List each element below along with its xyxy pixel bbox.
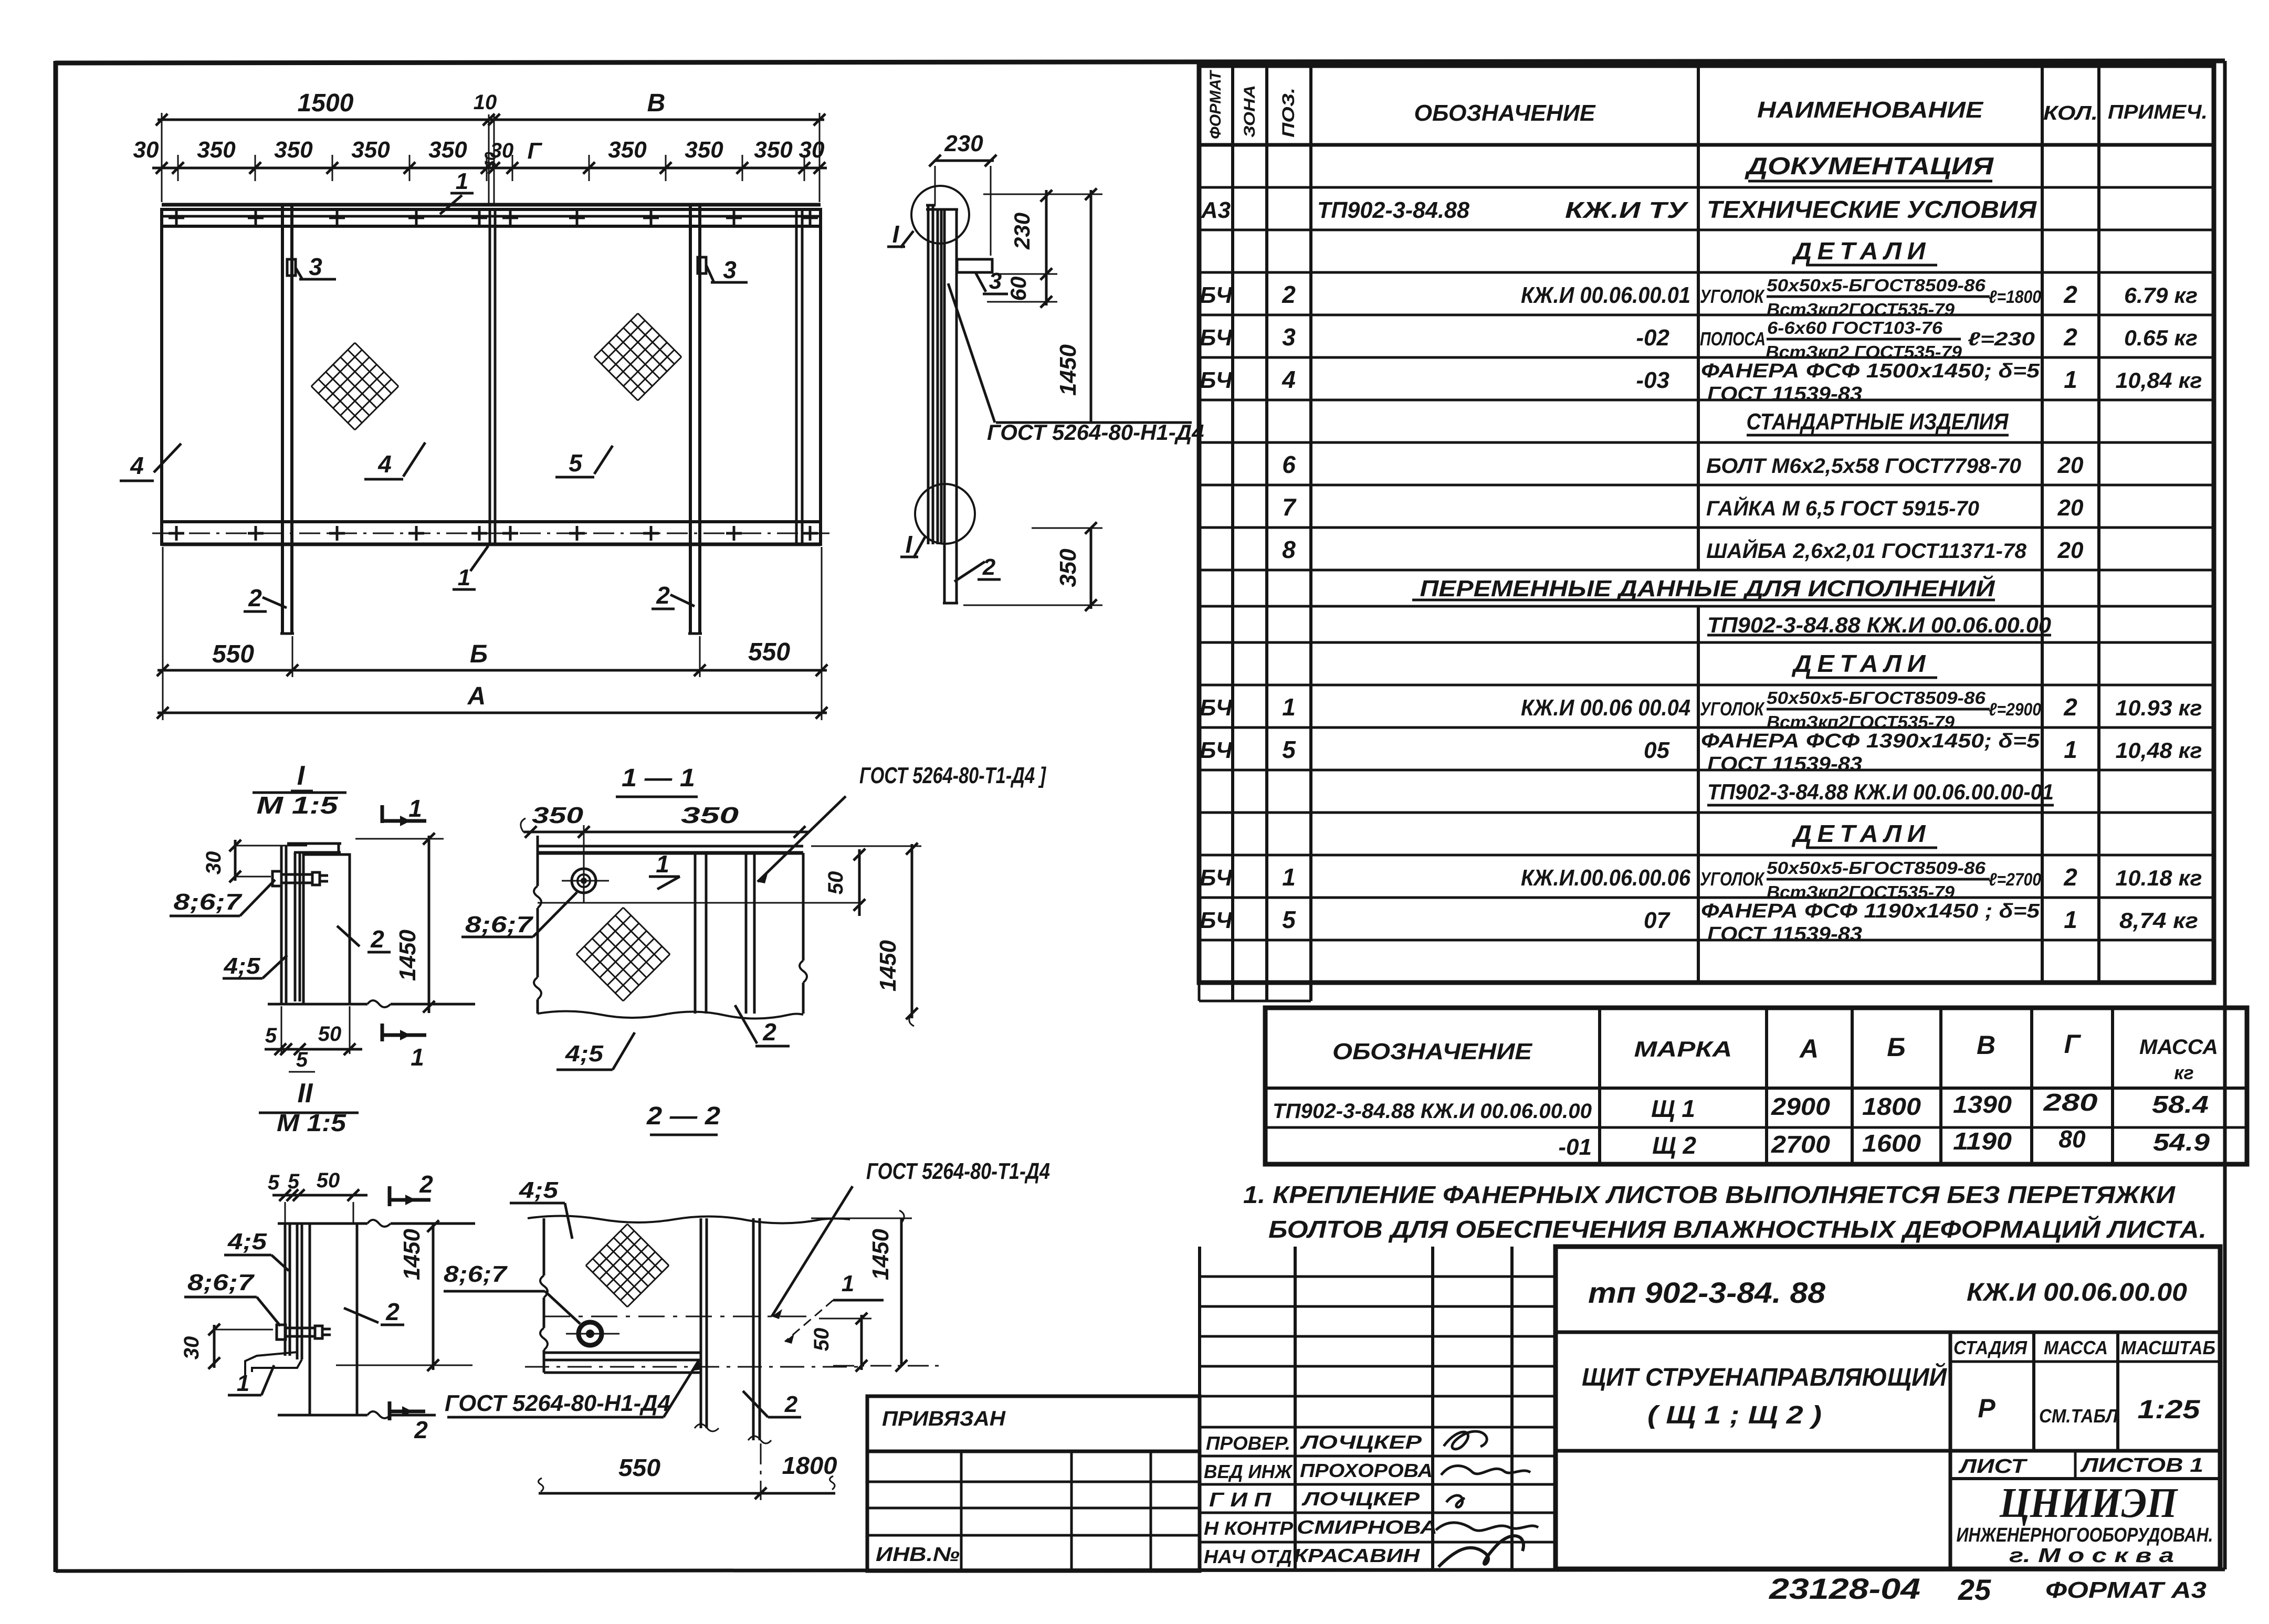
annex verticals: [960, 1451, 963, 1571]
side view dim 230 top: [935, 160, 994, 162]
svg-text:23128-04: 23128-04: [1769, 1572, 1920, 1605]
section I bolt: [272, 871, 281, 886]
section I cut mark 1 top right: [381, 805, 384, 823]
svg-text:-02: -02: [1636, 325, 1669, 351]
svg-text:7: 7: [1282, 493, 1297, 521]
svg-text:1: 1: [2064, 366, 2077, 393]
svg-text:4: 4: [130, 452, 144, 479]
svg-text:ЦНИИЭП: ЦНИИЭП: [1999, 1480, 2179, 1526]
side view top cap: [926, 204, 936, 207]
svg-text:1600: 1600: [1862, 1130, 1921, 1157]
section I angle top flange: [287, 842, 341, 845]
svg-text:550: 550: [212, 640, 254, 668]
svg-text:1 — 1: 1 — 1: [622, 764, 695, 792]
param table column lines: [1598, 1008, 1601, 1164]
svg-text:6.79 кг: 6.79 кг: [2124, 283, 2198, 308]
svg-text:1:25: 1:25: [2138, 1395, 2201, 1424]
title block list column divider: [2074, 1451, 2077, 1479]
side view detail circle I bottom: [915, 484, 975, 544]
svg-text:4;5: 4;5: [565, 1041, 604, 1067]
svg-text:1800: 1800: [1862, 1093, 1921, 1120]
section II top edge wavy line: [278, 1222, 367, 1225]
svg-text:2: 2: [2063, 281, 2077, 308]
svg-text:ПРИМЕЧ.: ПРИМЕЧ.: [2108, 101, 2208, 123]
page frame bottom border: [56, 1569, 2225, 1571]
svg-text:5: 5: [1282, 736, 1296, 763]
svg-text:2: 2: [370, 925, 384, 953]
svg-text:2: 2: [248, 584, 262, 611]
section 2-2 top break line: [528, 1216, 850, 1223]
svg-text:3: 3: [989, 268, 1002, 294]
svg-text:-01: -01: [1558, 1134, 1592, 1160]
front view hatch right: [594, 313, 638, 357]
signature grid lower rows: [1200, 1455, 1556, 1458]
svg-text:1500: 1500: [298, 89, 354, 117]
svg-text:30: 30: [180, 1336, 203, 1360]
svg-text:1450: 1450: [395, 930, 421, 981]
section I bottom dims 5 50: [265, 1048, 362, 1051]
section 2-2 bolt circle filled: [579, 1322, 602, 1345]
svg-text:350: 350: [681, 803, 739, 828]
section 2-2 dash-dot line: [525, 1366, 861, 1368]
svg-text:8,74 кг: 8,74 кг: [2119, 908, 2198, 933]
svg-text:230: 230: [1010, 213, 1034, 250]
svg-text:ГОСТ 5264-80-Т1-Д4: ГОСТ 5264-80-Т1-Д4: [866, 1158, 1050, 1184]
section I cut mark 1 bottom right: [381, 1024, 384, 1041]
svg-text:ВстЗкп2ГОСТ535-79: ВстЗкп2ГОСТ535-79: [1767, 882, 1955, 902]
svg-text:10: 10: [474, 91, 497, 114]
svg-text:ТП902-3-84.88 КЖ.И 00.06.00: ТП902-3-84.88 КЖ.И 00.06.00.00: [1273, 1100, 1592, 1123]
svg-text:8;6;7: 8;6;7: [174, 889, 243, 915]
svg-text:Г: Г: [2064, 1029, 2082, 1059]
title block line above list row: [1556, 1449, 2220, 1453]
svg-text:1: 1: [656, 850, 669, 878]
svg-text:20: 20: [2057, 495, 2084, 521]
side view angle edge lines: [937, 209, 939, 544]
svg-text:1: 1: [842, 1271, 854, 1296]
side view sheet edge lines: [927, 205, 930, 544]
svg-text:1450: 1450: [875, 940, 901, 992]
svg-text:КЖ.И 00.06 00.04: КЖ.И 00.06 00.04: [1521, 695, 1690, 721]
section II angle leg verticals: [296, 1224, 299, 1359]
svg-text:БОЛТ М6х2,5х58 ГОСТ7798-70: БОЛТ М6х2,5х58 ГОСТ7798-70: [1706, 455, 2021, 478]
svg-text:ℓ=230: ℓ=230: [1968, 328, 2035, 350]
section 2-2 left edge verticals with breaks: [543, 1218, 545, 1275]
svg-text:А: А: [1799, 1034, 1819, 1063]
svg-text:БЧ: БЧ: [1200, 367, 1233, 393]
svg-text:1: 1: [237, 1370, 249, 1396]
svg-text:350: 350: [754, 137, 793, 163]
svg-text:50: 50: [318, 1022, 342, 1046]
section I angle leg verticals: [294, 852, 297, 1001]
svg-text:6: 6: [1282, 451, 1296, 478]
spec table outer border: [1199, 66, 2214, 983]
privjazan box: [867, 1396, 1200, 1451]
svg-text:ЛОЧЦКЕР: ЛОЧЦКЕР: [1299, 1431, 1422, 1453]
svg-text:30: 30: [799, 137, 825, 163]
section 1-1 bolt center line vertical: [583, 825, 585, 903]
svg-text:10.93 кг: 10.93 кг: [2116, 695, 2202, 720]
svg-text:10.18 кг: 10.18 кг: [2116, 866, 2202, 890]
svg-text:550: 550: [748, 638, 790, 666]
svg-text:5: 5: [268, 1171, 280, 1194]
svg-text:2700: 2700: [1771, 1131, 1831, 1158]
svg-text:ПРОХОРОВА: ПРОХОРОВА: [1300, 1460, 1433, 1481]
front view bottom band dash-dot line: [152, 533, 829, 534]
svg-text:230: 230: [944, 131, 983, 156]
section 1-1 dim 1450: [911, 844, 913, 1018]
front view left clip item3: [287, 259, 296, 276]
section II post bar: [310, 1224, 357, 1415]
section II bolt: [277, 1325, 286, 1340]
svg-text:УГОЛОК: УГОЛОК: [1700, 286, 1765, 307]
svg-text:ВЕД ИНЖ: ВЕД ИНЖ: [1204, 1461, 1293, 1482]
svg-text:2: 2: [385, 1298, 400, 1325]
svg-text:1: 1: [2064, 736, 2077, 763]
svg-text:1: 1: [456, 168, 468, 194]
svg-text:4: 4: [1281, 366, 1296, 393]
svg-text:10,84 кг: 10,84 кг: [2116, 368, 2202, 393]
page frame right border: [2223, 61, 2227, 1569]
svg-text:( Щ 1 ; Щ 2 ): ( Щ 1 ; Щ 2 ): [1647, 1401, 1822, 1429]
svg-text:5: 5: [296, 1048, 308, 1071]
svg-text:ФАНЕРА ФСФ 1190х1450 ; δ=5: ФАНЕРА ФСФ 1190х1450 ; δ=5: [1701, 900, 2040, 922]
svg-text:ТП902-3-84.88: ТП902-3-84.88: [1317, 197, 1470, 223]
svg-text:350: 350: [532, 803, 584, 828]
svg-text:5: 5: [1282, 906, 1296, 933]
svg-text:Б: Б: [470, 640, 488, 668]
svg-text:50: 50: [810, 1328, 833, 1352]
label 3 left with leader: [296, 268, 302, 279]
section II top dims 5 5 50: [272, 1194, 367, 1197]
front dim B row: 550 B 550: [157, 669, 827, 672]
svg-text:ГОСТ 11539-83: ГОСТ 11539-83: [1707, 753, 1862, 775]
front dim lower extension verticals: [162, 547, 164, 720]
svg-text:Щ 2: Щ 2: [1652, 1132, 1696, 1159]
svg-text:280: 280: [2043, 1089, 2098, 1116]
section 2-2 dim 50 right: [860, 1315, 863, 1370]
svg-text:ИНВ.№: ИНВ.№: [876, 1544, 960, 1566]
svg-text:ДЕТАЛИ: ДЕТАЛИ: [1791, 237, 1931, 265]
front view right clip item3: [698, 257, 706, 273]
svg-text:1450: 1450: [1055, 344, 1081, 396]
svg-text:М 1:5: М 1:5: [257, 792, 339, 819]
svg-text:5: 5: [569, 449, 583, 477]
svg-text:Н КОНТР: Н КОНТР: [1204, 1517, 1294, 1539]
svg-text:БЧ: БЧ: [1200, 737, 1233, 763]
svg-text:350: 350: [428, 137, 467, 163]
section 1-1 top band lines: [538, 845, 803, 848]
section I dim 30: [234, 840, 237, 881]
side view dim 230 vertical: [1045, 190, 1048, 305]
front dim row1 line 1500-10-V: [157, 119, 824, 121]
svg-text:ШАЙБА 2,6х2,01 ГОСТ11371-78: ШАЙБА 2,6х2,01 ГОСТ11371-78: [1706, 538, 2027, 563]
front view right sheet edge lines: [795, 209, 798, 544]
section 2-2 bottom dims 550 1800: [539, 1492, 835, 1495]
svg-text:Г И П: Г И П: [1209, 1489, 1272, 1511]
svg-text:2: 2: [2063, 863, 2077, 891]
spec table row lines: [1199, 186, 2214, 189]
svg-text:I: I: [297, 761, 306, 791]
svg-text:ПЕРЕМЕННЫЕ ДАННЫЕ ДЛЯ ИСПОЛНЕН: ПЕРЕМЕННЫЕ ДАННЫЕ ДЛЯ ИСПОЛНЕНИЙ: [1420, 575, 1996, 602]
svg-text:УГОЛОК: УГОЛОК: [1700, 868, 1765, 890]
svg-text:50: 50: [317, 1169, 340, 1192]
svg-text:МАССА: МАССА: [2044, 1337, 2108, 1358]
svg-text:ЛИСТОВ 1: ЛИСТОВ 1: [2079, 1454, 2203, 1477]
svg-text:20: 20: [2057, 452, 2084, 478]
svg-text:М 1:5: М 1:5: [277, 1109, 347, 1136]
svg-text:Г: Г: [527, 138, 542, 164]
section 1-1 right edge line with break: [802, 853, 805, 961]
svg-text:ГОСТ 11539-83: ГОСТ 11539-83: [1707, 923, 1862, 945]
svg-text:Щ 1: Щ 1: [1651, 1095, 1695, 1122]
svg-text:8: 8: [1282, 536, 1296, 563]
spec table column lines: [1231, 66, 1234, 1001]
side view post bar: [943, 209, 946, 603]
svg-text:30: 30: [133, 137, 159, 163]
svg-text:НАЧ ОТД: НАЧ ОТД: [1204, 1546, 1292, 1567]
svg-text:2: 2: [2063, 693, 2077, 721]
svg-text:-03: -03: [1636, 367, 1669, 393]
svg-text:СТАНДАРТНЫЕ ИЗДЕЛИЯ: СТАНДАРТНЫЕ ИЗДЕЛИЯ: [1747, 409, 2009, 435]
side view item3 flat bar: [957, 259, 992, 272]
section II dim 30: [213, 1325, 216, 1368]
section 2-2 hatch: [586, 1224, 627, 1266]
svg-text:А3: А3: [1201, 197, 1231, 223]
svg-text:1: 1: [411, 1043, 424, 1071]
svg-text:II: II: [298, 1078, 313, 1109]
svg-text:СТАДИЯ: СТАДИЯ: [1953, 1337, 2028, 1358]
section I post bar: [303, 855, 350, 1004]
svg-text:ПРОВЕР.: ПРОВЕР.: [1206, 1432, 1290, 1454]
svg-text:ИНЖЕНЕРНОГООБОРУДОВАН.: ИНЖЕНЕРНОГООБОРУДОВАН.: [1957, 1524, 2213, 1546]
page frame left border: [54, 61, 58, 1572]
svg-text:ФОРМАТ А3: ФОРМАТ А3: [2045, 1577, 2207, 1603]
svg-text:20: 20: [2057, 537, 2084, 563]
svg-text:ℓ=1800: ℓ=1800: [1989, 287, 2041, 307]
svg-text:350: 350: [608, 137, 647, 163]
svg-text:ФАНЕРА ФСФ 1500х1450; δ=5: ФАНЕРА ФСФ 1500х1450; δ=5: [1701, 360, 2040, 382]
svg-text:350: 350: [685, 137, 723, 163]
svg-text:350: 350: [351, 137, 390, 163]
section II cut mark 2 top right: [388, 1186, 392, 1206]
section 1-1 joint cover verticals: [694, 853, 697, 1014]
svg-text:2900: 2900: [1771, 1093, 1831, 1120]
svg-text:3: 3: [1282, 323, 1296, 351]
front view top band bolt crosses: [169, 217, 184, 219]
title block stage header underline: [1950, 1361, 2220, 1363]
section 2-2 dim 1450 right: [900, 1218, 903, 1366]
svg-text:10,48 кг: 10,48 кг: [2116, 738, 2202, 763]
svg-text:8;6;7: 8;6;7: [187, 1270, 255, 1295]
section 2-2 joint cover verticals: [700, 1218, 702, 1428]
svg-text:НАИМЕНОВАНИЕ: НАИМЕНОВАНИЕ: [1757, 97, 1984, 123]
title block outer box: [1556, 1247, 2220, 1569]
svg-text:БОЛТОВ ДЛЯ ОБЕСПЕЧЕНИЯ ВЛАЖ: БОЛТОВ ДЛЯ ОБЕСПЕЧЕНИЯ ВЛАЖНОСТНЫХ ДЕФОР…: [1268, 1216, 2207, 1243]
title block line under list row: [1950, 1477, 2220, 1480]
annex table box: [867, 1451, 1200, 1571]
section 1-1 dims 350 350: [523, 831, 808, 834]
svg-text:2: 2: [1281, 281, 1296, 308]
svg-text:КЖ.И 00.06.00.01: КЖ.И 00.06.00.01: [1521, 282, 1690, 308]
svg-text:БЧ: БЧ: [1200, 325, 1233, 351]
front view hatch left: [311, 343, 355, 386]
svg-text:г. М о с к в а: г. М о с к в а: [2009, 1545, 2174, 1567]
svg-text:80: 80: [2058, 1125, 2086, 1153]
svg-text:КРАСАВИН: КРАСАВИН: [1294, 1545, 1420, 1566]
svg-text:1: 1: [1282, 863, 1296, 891]
svg-text:МАССА: МАССА: [2139, 1036, 2218, 1059]
front dim extension verticals top: [161, 113, 163, 202]
section I sheet verticals: [280, 846, 283, 1004]
svg-text:2: 2: [982, 554, 996, 580]
svg-text:ТП902-3-84.88 КЖ.И 00.06.00.: ТП902-3-84.88 КЖ.И 00.06.00.00: [1707, 613, 2051, 637]
section 1-1 bolt circle: [572, 869, 596, 893]
svg-text:350: 350: [197, 137, 236, 163]
svg-text:МАРКА: МАРКА: [1634, 1037, 1732, 1061]
svg-text:5: 5: [288, 1170, 300, 1193]
front view right post: [689, 205, 692, 634]
svg-text:3: 3: [309, 253, 322, 280]
section II sheet verticals: [284, 1224, 287, 1356]
svg-text:ТЕХНИЧЕСКИЕ УСЛОВИЯ: ТЕХНИЧЕСКИЕ УСЛОВИЯ: [1707, 196, 2037, 223]
svg-text:2 — 2: 2 — 2: [646, 1102, 720, 1130]
front view left post: [281, 205, 284, 634]
page frame top border: [55, 61, 2225, 63]
front view bottom band bolt crosses: [169, 532, 184, 535]
svg-text:1800: 1800: [782, 1452, 837, 1479]
section 1-1 hatch: [576, 908, 623, 954]
svg-text:ФОРМАТ: ФОРМАТ: [1207, 69, 1224, 139]
svg-text:ГАЙКА М 6,5 ГОСТ 5915-70: ГАЙКА М 6,5 ГОСТ 5915-70: [1706, 495, 1979, 520]
svg-text:50: 50: [824, 871, 847, 895]
signature grid upper rows: [1200, 1275, 1556, 1278]
svg-text:ПОЗ.: ПОЗ.: [1279, 88, 1298, 138]
side view dim 350 vertical: [1090, 528, 1093, 609]
svg-text:1: 1: [408, 795, 422, 822]
section 1-1 bottom break line: [538, 1011, 803, 1018]
svg-text:А: А: [467, 682, 486, 710]
svg-text:58.4: 58.4: [2152, 1091, 2209, 1118]
svg-text:1450: 1450: [868, 1229, 894, 1280]
annex rows: [867, 1481, 1200, 1483]
side view dim 1450 vertical: [1090, 190, 1093, 423]
svg-text:2: 2: [784, 1391, 798, 1417]
front dim A row: [157, 712, 827, 714]
title block line under project row: [1556, 1331, 2220, 1334]
svg-text:БЧ: БЧ: [1200, 695, 1233, 721]
svg-text:Б: Б: [1887, 1032, 1905, 1062]
svg-text:50х50х5-БГОСТ8509-86: 50х50х5-БГОСТ8509-86: [1767, 276, 1986, 295]
section II cut mark 2 bottom right: [388, 1401, 392, 1420]
svg-text:КЖ.И ТУ: КЖ.И ТУ: [1565, 197, 1689, 223]
side view dim 60 vertical: [1041, 296, 1052, 308]
signature squiggles: [1444, 1431, 1487, 1449]
section 1-1 left edge line with breaks: [537, 836, 539, 886]
svg-text:ОБОЗНАЧЕНИЕ: ОБОЗНАЧЕНИЕ: [1332, 1039, 1533, 1064]
section 2-2 bolt axis dash line: [544, 1316, 806, 1317]
title block vertical divider name/stamp: [1949, 1332, 1952, 1569]
svg-text:4;5: 4;5: [519, 1177, 559, 1203]
svg-text:СМ.ТАБЛ: СМ.ТАБЛ: [2039, 1405, 2118, 1427]
svg-text:БЧ: БЧ: [1200, 282, 1233, 308]
title block stage-mass-scale verticals: [2032, 1332, 2035, 1451]
svg-text:СМИРНОВА: СМИРНОВА: [1297, 1516, 1437, 1538]
svg-text:6-6х60 ГОСТ103-76: 6-6х60 ГОСТ103-76: [1767, 318, 1943, 338]
section I dim 1450: [428, 836, 430, 1013]
side view right dims extension lines: [983, 194, 1102, 195]
svg-text:КЖ.И 00.06.00.00: КЖ.И 00.06.00.00: [1967, 1279, 2187, 1306]
front view top band lines: [162, 203, 821, 207]
front dim row2 line 30-350s: [152, 167, 827, 170]
svg-text:2: 2: [2063, 323, 2077, 351]
section 1-1 dim 50: [858, 849, 861, 916]
svg-text:60: 60: [1006, 277, 1031, 301]
svg-text:30: 30: [202, 851, 225, 875]
svg-text:2: 2: [656, 582, 670, 609]
svg-text:ДОКУМЕНТАЦИЯ: ДОКУМЕНТАЦИЯ: [1744, 152, 1994, 180]
svg-text:МАСШТАБ: МАСШТАБ: [2121, 1337, 2215, 1358]
svg-text:ВстЗкп2ГОСТ535-79: ВстЗкп2ГОСТ535-79: [1767, 712, 1955, 732]
svg-text:1. КРЕПЛЕНИЕ ФАНЕРНЫХ ЛИСТОВ: 1. КРЕПЛЕНИЕ ФАНЕРНЫХ ЛИСТОВ ВЫПОЛНЯЕТСЯ…: [1243, 1181, 2176, 1208]
svg-text:05: 05: [1644, 737, 1669, 763]
svg-text:1: 1: [2064, 906, 2077, 933]
svg-text:2: 2: [419, 1170, 433, 1198]
svg-text:1450: 1450: [399, 1229, 425, 1280]
svg-text:0.65 кг: 0.65 кг: [2124, 325, 2198, 350]
spec table bottom extension of narrow columns: [1199, 1000, 1311, 1003]
svg-text:ДЕТАЛИ: ДЕТАЛИ: [1791, 820, 1931, 847]
svg-text:ЛИСТ: ЛИСТ: [1958, 1456, 2028, 1478]
svg-text:1190: 1190: [1953, 1127, 2012, 1155]
svg-text:54.9: 54.9: [2153, 1129, 2210, 1156]
svg-text:ТП902-3-84.88 КЖ.И 00.06.00.0: ТП902-3-84.88 КЖ.И 00.06.00.00-01: [1707, 779, 2054, 804]
svg-text:350: 350: [1055, 549, 1081, 587]
svg-text:В: В: [1977, 1030, 1995, 1060]
svg-text:4;5: 4;5: [227, 1229, 267, 1254]
section I bottom edge line: [268, 1003, 367, 1006]
svg-text:07: 07: [1644, 908, 1671, 933]
svg-text:I: I: [906, 531, 913, 558]
section 1-1 post verticals: [745, 853, 748, 1014]
svg-text:8;6;7: 8;6;7: [465, 912, 534, 937]
svg-text:I: I: [892, 220, 900, 248]
svg-text:КЖ.И.00.06.00.06: КЖ.И.00.06.00.06: [1521, 865, 1690, 891]
svg-text:50х50х5-БГОСТ8509-86: 50х50х5-БГОСТ8509-86: [1767, 858, 1986, 878]
svg-text:ЩИТ СТРУЕНАПРАВЛЯЮЩИЙ: ЩИТ СТРУЕНАПРАВЛЯЮЩИЙ: [1582, 1363, 1947, 1391]
svg-text:КОЛ.: КОЛ.: [2043, 102, 2098, 124]
section II dim 1450: [432, 1223, 435, 1370]
front view bottom band lines: [162, 520, 821, 523]
svg-text:ВстЗкп2ГОСТ535-79: ВстЗкп2ГОСТ535-79: [1767, 300, 1955, 319]
signature grid verticals: [1198, 1247, 1201, 1571]
svg-text:ДЕТАЛИ: ДЕТАЛИ: [1791, 650, 1931, 677]
svg-text:кг: кг: [2174, 1062, 2193, 1083]
svg-text:1: 1: [1282, 693, 1296, 721]
section 2-2 band lines: [544, 1352, 701, 1354]
svg-text:350: 350: [274, 137, 313, 163]
section 2-2 dash-dot right extension: [833, 1365, 945, 1367]
section II bottom angle hook: [245, 1352, 302, 1375]
svg-text:Р: Р: [1978, 1394, 1995, 1423]
svg-text:ПОЛОСА: ПОЛОСА: [1700, 328, 1766, 350]
svg-text:50х50х5-БГОСТ8509-86: 50х50х5-БГОСТ8509-86: [1767, 688, 1986, 708]
svg-text:В: В: [647, 89, 666, 117]
svg-text:ПРИВЯЗАН: ПРИВЯЗАН: [882, 1407, 1006, 1430]
label 3 right with leader: [706, 265, 714, 282]
front view center joint lines: [489, 209, 491, 544]
svg-text:ℓ=2900: ℓ=2900: [1989, 700, 2041, 720]
